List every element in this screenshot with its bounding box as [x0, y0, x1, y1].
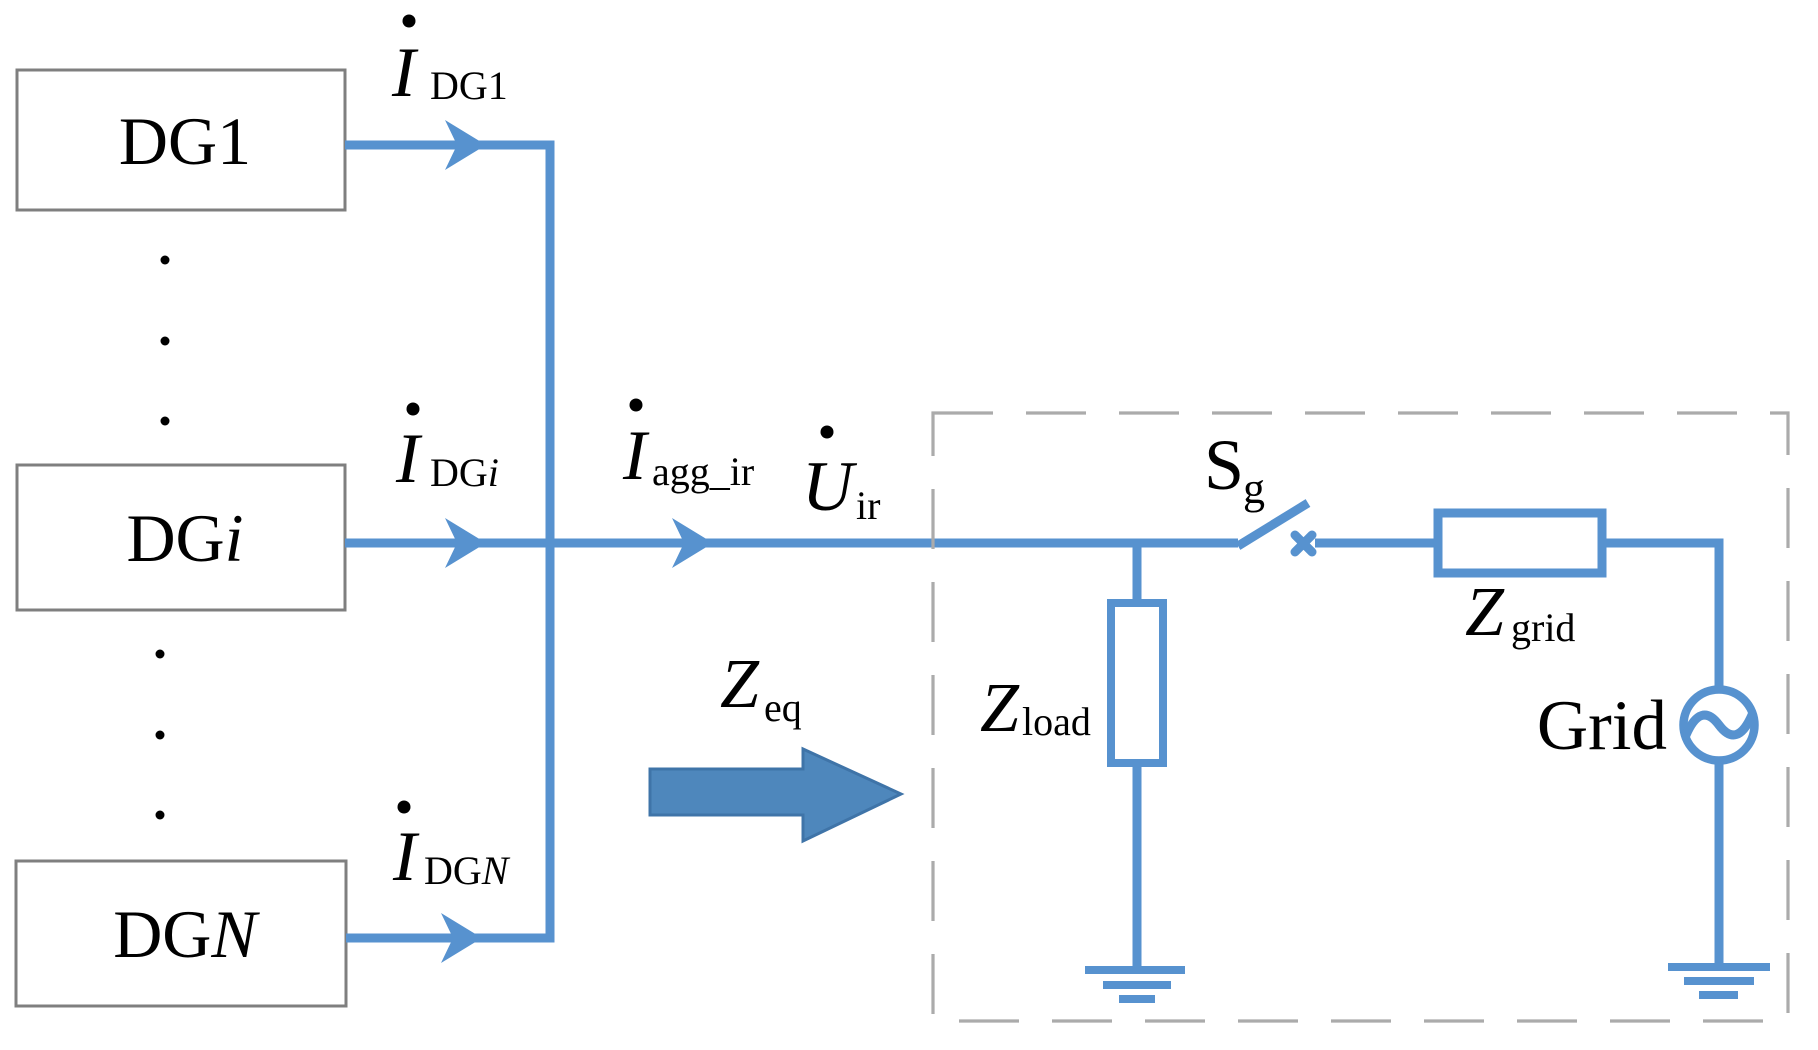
- bus vertical wire: [546, 141, 555, 939]
- svg-text:U: U: [802, 448, 858, 526]
- label Z_grid: [1465, 574, 1575, 651]
- arrowhead on DGi wire: [445, 518, 486, 568]
- svg-text:Grid: Grid: [1537, 687, 1667, 765]
- svg-text:eq: eq: [764, 685, 802, 730]
- svg-text:Z: Z: [1465, 574, 1505, 651]
- resistor Z_load: [1111, 603, 1163, 763]
- AC source Grid circle: [1684, 690, 1755, 761]
- svg-text:I: I: [622, 417, 650, 495]
- switch contact x: [1295, 535, 1312, 552]
- svg-text:DG1: DG1: [430, 63, 508, 108]
- svg-text:DGN: DGN: [113, 896, 260, 972]
- AC source sine wave: [1686, 715, 1752, 735]
- label Z_eq: [720, 646, 802, 730]
- switch S_g blade: [1238, 503, 1308, 546]
- block DGi: [17, 465, 345, 610]
- arrowhead I_agg_ir on main wire: [672, 518, 713, 568]
- ellipsis dots between DGi and DGN: [156, 650, 165, 820]
- ground under Grid source: [1668, 963, 1770, 999]
- svg-text:I: I: [391, 34, 419, 112]
- svg-text:DGi: DGi: [430, 450, 499, 495]
- wire switch to Z_grid: [1315, 539, 1438, 548]
- svg-text:Z: Z: [720, 646, 760, 723]
- ellipsis dots between DG1 and DGi: [161, 256, 170, 426]
- impedance direction arrow Z_eq: [650, 749, 901, 841]
- wire source to ground: [1715, 760, 1724, 967]
- dashed boundary box: [933, 413, 1788, 1021]
- block DGN: [16, 861, 346, 1006]
- svg-text:Z: Z: [980, 670, 1020, 747]
- wire DGN to bus: [346, 934, 555, 943]
- svg-text:DG1: DG1: [119, 103, 251, 179]
- wire DG1 to bus: [345, 141, 550, 150]
- wire node down to Z_load: [1133, 543, 1142, 603]
- svg-text:I: I: [395, 420, 423, 498]
- wire DGi to bus: [345, 539, 555, 548]
- label I_DGN: [392, 801, 511, 897]
- svg-text:I: I: [392, 818, 420, 896]
- label S_g: [1204, 425, 1265, 513]
- label I_DGi: [395, 403, 499, 499]
- main wire bus to switch pivot: [550, 539, 1238, 548]
- svg-text:grid: grid: [1511, 605, 1575, 650]
- label U_ir: [802, 426, 880, 529]
- svg-text:DGi: DGi: [126, 500, 243, 576]
- label Z_load: [980, 670, 1091, 747]
- arrowhead on DG1 wire: [445, 120, 486, 170]
- svg-text:ir: ir: [856, 483, 880, 528]
- arrowhead on DGN wire: [441, 913, 482, 963]
- svg-text:load: load: [1022, 699, 1091, 744]
- ground under Z_load: [1085, 966, 1185, 1003]
- label I_DG1: [391, 15, 508, 113]
- label I_agg_ir: [622, 399, 754, 496]
- svg-text:DGN: DGN: [424, 848, 511, 893]
- wire Z_load to ground: [1133, 763, 1142, 967]
- svg-text:S: S: [1204, 425, 1244, 505]
- block DG1: [17, 70, 345, 210]
- svg-text:agg_ir: agg_ir: [652, 449, 754, 494]
- wire Z_grid to corner down to source: [1602, 543, 1719, 690]
- resistor Z_grid: [1438, 513, 1602, 573]
- svg-text:g: g: [1243, 464, 1265, 513]
